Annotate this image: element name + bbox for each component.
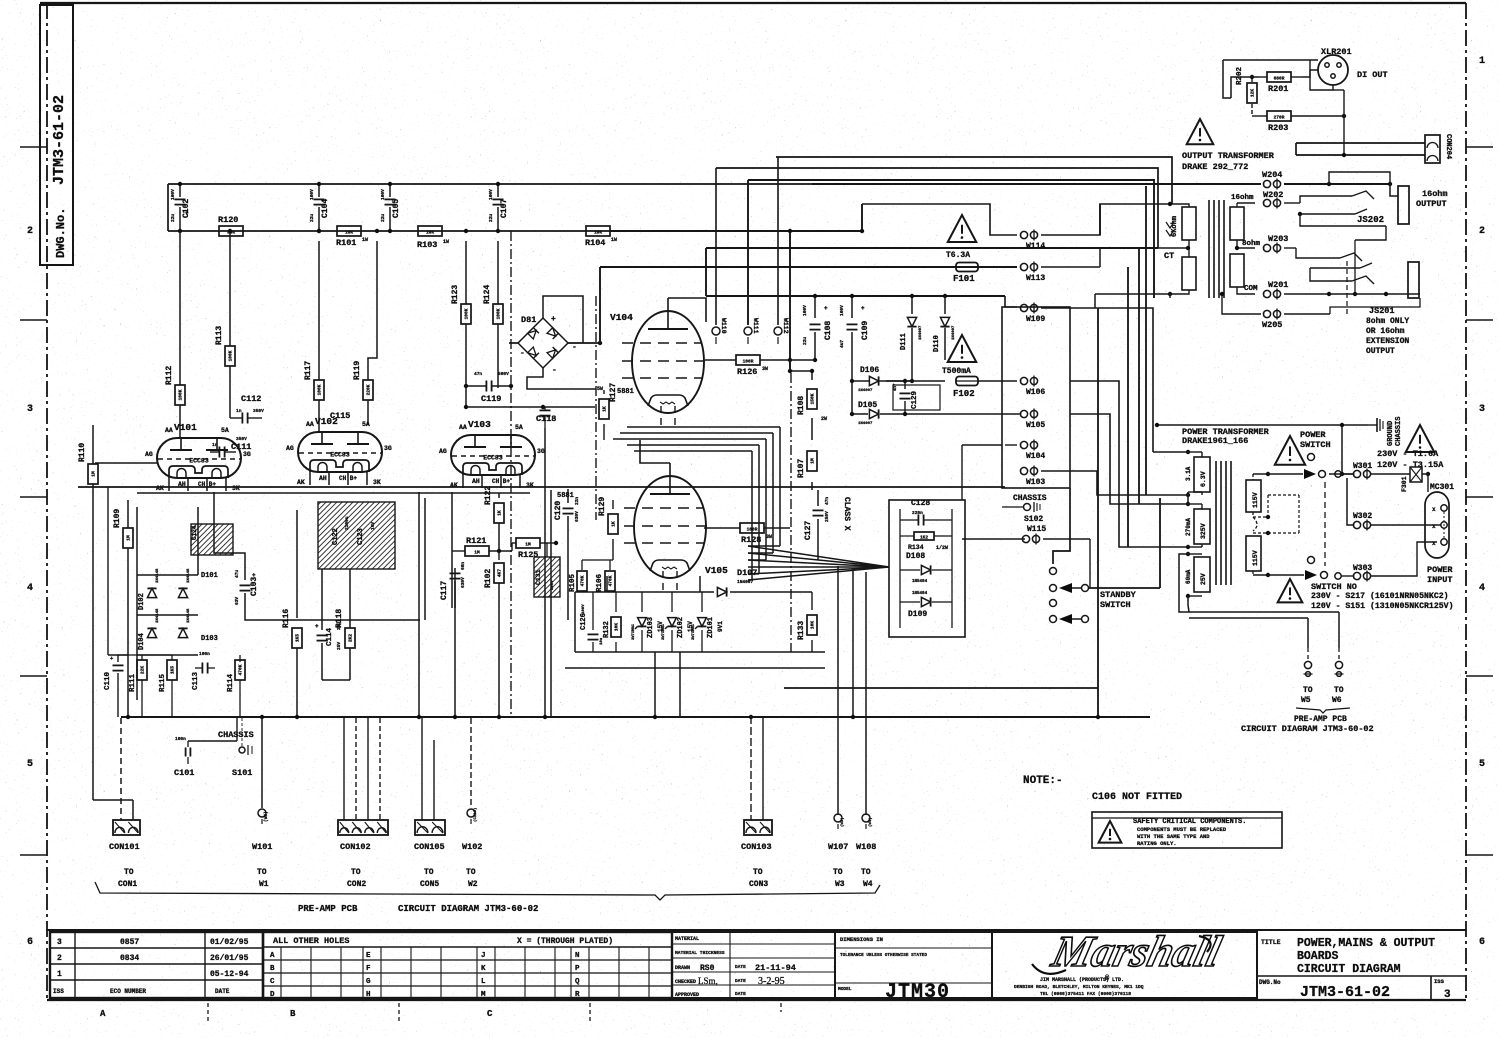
svg-text:63V: 63V <box>234 597 240 605</box>
capacitor C109 <box>839 294 870 380</box>
svg-text:16ohm: 16ohm <box>1231 194 1254 202</box>
svg-text:T6.3A: T6.3A <box>946 251 970 260</box>
svg-text:R121: R121 <box>466 536 486 546</box>
svg-text:22n: 22n <box>574 497 580 505</box>
svg-text:R109: R109 <box>113 509 122 528</box>
wire primary ends <box>1095 294 1170 308</box>
border top line <box>40 2 1466 4</box>
svg-text:10K: 10K <box>810 621 816 629</box>
wire bundle verticals <box>627 427 780 580</box>
svg-text:TO: TO <box>833 868 843 877</box>
svg-text:100K: 100K <box>317 384 323 395</box>
svg-text:100K: 100K <box>464 308 470 319</box>
wire W109 to 6.3V top <box>1070 308 1153 452</box>
svg-text:AK: AK <box>297 479 305 486</box>
svg-text:C129: C129 <box>911 390 919 409</box>
label 16ohm output <box>1416 189 1448 209</box>
svg-text:D108: D108 <box>906 552 925 561</box>
svg-text:R111: R111 <box>129 673 137 692</box>
wire 25V loop <box>1179 554 1339 612</box>
svg-text:1W: 1W <box>362 237 368 243</box>
svg-text:W1: W1 <box>259 880 269 889</box>
wire 115V CT loop <box>1253 495 1299 535</box>
svg-text:100V: 100V <box>309 189 315 200</box>
border bottom line <box>47 999 1466 1001</box>
resistor R118 <box>322 569 355 680</box>
DWG number box <box>40 5 73 265</box>
border left dash-dot line <box>46 3 48 1000</box>
svg-text:C120: C120 <box>554 501 563 520</box>
svg-text:6: 6 <box>1479 937 1485 948</box>
svg-text:C105: C105 <box>392 199 401 218</box>
svg-text:OUTPUT: OUTPUT <box>1366 347 1395 356</box>
svg-text:5A: 5A <box>221 427 229 434</box>
svg-text:4n7: 4n7 <box>894 383 898 391</box>
svg-text:W202: W202 <box>1263 190 1283 200</box>
svg-text:AH: AH <box>319 475 327 482</box>
svg-text:JTM3-61-02: JTM3-61-02 <box>51 95 68 185</box>
resistor R119 <box>353 361 373 425</box>
svg-text:-: - <box>572 343 577 352</box>
wire right bundle <box>1100 204 1128 547</box>
svg-text:22K: 22K <box>140 666 146 674</box>
svg-text:5881: 5881 <box>617 388 634 396</box>
svg-text:D103: D103 <box>201 635 218 643</box>
label 6Kohm <box>1166 216 1179 237</box>
svg-text:H: H <box>366 991 371 999</box>
connector W202 <box>1263 190 1300 209</box>
svg-text:JTM30: JTM30 <box>885 981 950 1004</box>
svg-text:D107: D107 <box>737 568 757 578</box>
resistor R109 <box>113 500 133 718</box>
svg-text:100K: 100K <box>496 308 502 319</box>
diode D102 <box>138 568 160 610</box>
label output transformer <box>1182 151 1275 172</box>
winding 25V <box>1185 552 1210 598</box>
svg-text:R113: R113 <box>215 326 224 345</box>
svg-text:16ohm: 16ohm <box>1422 189 1448 199</box>
wire heater bus AK <box>78 486 1005 488</box>
capacitor C103 <box>214 492 420 620</box>
svg-text:3W7XMRC: 3W7XMRC <box>692 623 696 640</box>
svg-text:470K: 470K <box>238 664 244 675</box>
svg-text:CON5: CON5 <box>420 880 439 889</box>
svg-text:5W: 5W <box>597 386 603 392</box>
svg-text:0834: 0834 <box>120 954 139 963</box>
svg-text:XLR201: XLR201 <box>1321 47 1352 57</box>
svg-text:1N4148: 1N4148 <box>156 568 160 583</box>
svg-text:1M: 1M <box>91 471 97 477</box>
zener ZD102 <box>662 592 694 652</box>
svg-text:21-11-94: 21-11-94 <box>755 963 796 973</box>
wire top bus 2 <box>716 168 1158 248</box>
bottom row C110 <box>104 655 128 717</box>
svg-text:2K2: 2K2 <box>348 634 354 642</box>
Marshall logo box <box>992 927 1257 998</box>
preamp PCB dash-dot boundary <box>511 231 791 718</box>
svg-text:DATE: DATE <box>735 964 746 970</box>
svg-text:PRE-AMP PCB: PRE-AMP PCB <box>298 904 358 914</box>
wire W109 link <box>1005 307 1070 308</box>
svg-text:B: B <box>290 1009 296 1019</box>
fuse F101 <box>953 263 1017 285</box>
svg-text:LSm,: LSm, <box>698 976 718 986</box>
svg-text:DATE: DATE <box>215 988 230 995</box>
svg-text:C117: C117 <box>440 581 449 600</box>
svg-text:230V - S217 (16101NRN05NKC2): 230V - S217 (16101NRN05NKC2) <box>1311 591 1449 601</box>
svg-text:R110: R110 <box>78 443 87 462</box>
svg-text:C128: C128 <box>911 499 930 508</box>
svg-text:R114: R114 <box>227 673 235 692</box>
svg-text:CON1: CON1 <box>118 880 137 889</box>
wire 6.3V taps <box>1144 452 1188 504</box>
wire W104 run <box>962 445 1017 500</box>
svg-text:C104: C104 <box>321 199 330 218</box>
svg-text:TO: TO <box>861 868 871 877</box>
svg-text:CHASSIS: CHASSIS <box>1013 494 1047 503</box>
svg-text:ZD102: ZD102 <box>677 617 685 638</box>
svg-text:D101: D101 <box>201 572 218 580</box>
bottom row R114 <box>227 655 245 717</box>
svg-text:R108: R108 <box>797 396 806 415</box>
svg-text:POWER: POWER <box>1427 565 1453 575</box>
svg-text:V101: V101 <box>174 422 197 433</box>
resistor R120 <box>218 215 243 236</box>
winding 6.3V <box>1185 450 1210 497</box>
svg-text:POWER,MAINS & OUTPUT: POWER,MAINS & OUTPUT <box>1297 937 1435 950</box>
capacitor C101 <box>174 718 237 778</box>
svg-text:25V: 25V <box>336 642 342 650</box>
svg-text:5: 5 <box>27 759 33 770</box>
svg-text:16V: 16V <box>370 522 376 530</box>
connector XLR201 <box>1310 47 1388 90</box>
svg-text:1/2W: 1/2W <box>936 545 948 551</box>
svg-text:R: R <box>575 991 580 999</box>
svg-text:W108: W108 <box>856 842 876 852</box>
svg-text:25V: 25V <box>1200 573 1207 585</box>
svg-text:(W4): (W4) <box>868 817 873 827</box>
connector W5 <box>1301 661 1313 705</box>
winding 115V upper <box>1246 474 1261 517</box>
svg-text:DWG.No: DWG.No <box>1259 979 1281 986</box>
svg-text:100K: 100K <box>228 350 234 361</box>
svg-text:3G: 3G <box>384 445 392 452</box>
svg-text:C127: C127 <box>804 521 813 540</box>
svg-text:Marshall: Marshall <box>1047 927 1227 976</box>
svg-text:OUTPUT TRANSFORMER: OUTPUT TRANSFORMER <box>1182 151 1275 161</box>
wire W114 run <box>862 204 1172 235</box>
svg-text:AG: AG <box>286 445 294 452</box>
svg-text:M: M <box>481 991 486 999</box>
svg-text:350V: 350V <box>253 408 264 414</box>
svg-text:R134: R134 <box>908 544 924 551</box>
svg-text:3: 3 <box>27 404 33 415</box>
diode D107 <box>717 568 757 597</box>
resistor R201 <box>1259 72 1302 94</box>
svg-text:(C110): (C110) <box>473 808 478 822</box>
svg-text:120V - S151 (1310N05NKCR125V): 120V - S151 (1310N05NKCR125V) <box>1311 601 1454 611</box>
svg-text:MATERIAL THICKNESS: MATERIAL THICKNESS <box>675 950 725 956</box>
svg-text:R119: R119 <box>353 361 362 380</box>
resistor R101 <box>336 226 368 248</box>
preamp pcb brace <box>95 882 880 914</box>
wire fan bundle <box>748 546 889 580</box>
svg-text:1K5: 1K5 <box>295 634 301 642</box>
svg-text:R103: R103 <box>417 240 437 250</box>
border zone tick marks <box>20 147 1493 855</box>
resistor R126 <box>705 355 792 377</box>
hatched network C124 <box>191 524 233 555</box>
connector CON103 <box>741 716 772 889</box>
svg-text:W2: W2 <box>468 880 478 889</box>
wire to CON204 <box>1296 143 1425 157</box>
svg-text:W203: W203 <box>1268 234 1288 244</box>
svg-text:4K7: 4K7 <box>497 569 503 577</box>
svg-text:CON3: CON3 <box>749 880 768 889</box>
bottom row R111 <box>129 655 147 717</box>
svg-text:3W7XMRC: 3W7XMRC <box>632 623 636 640</box>
svg-text:R120: R120 <box>218 215 238 225</box>
svg-text:x: x <box>1432 523 1436 530</box>
svg-text:APPROVED: APPROVED <box>675 992 699 998</box>
safety critical components box <box>1092 812 1282 848</box>
svg-text:R201: R201 <box>1268 84 1288 94</box>
svg-text:100V: 100V <box>170 189 176 200</box>
diode D111 <box>900 294 923 381</box>
svg-text:WITH THE SAME TYPE AND: WITH THE SAME TYPE AND <box>1137 833 1210 840</box>
connector W201 <box>1263 280 1420 300</box>
output secondary winding lower <box>1230 254 1244 287</box>
svg-text:3G: 3G <box>243 451 251 458</box>
svg-text:D111: D111 <box>900 333 908 350</box>
svg-text:MODEL: MODEL <box>838 986 852 992</box>
svg-text:2200u: 2200u <box>344 516 350 530</box>
connector CON204 <box>1425 134 1452 163</box>
warning triangle output <box>1187 119 1214 144</box>
svg-text:470K: 470K <box>608 575 614 586</box>
svg-text:100n: 100n <box>175 736 186 742</box>
pentode V105 <box>557 440 728 592</box>
resistor R107 <box>797 428 817 490</box>
border bottom letters <box>100 1003 781 1022</box>
svg-text:AA: AA <box>165 427 173 434</box>
svg-text:1N4007: 1N4007 <box>858 389 873 393</box>
capacitor C119 <box>464 371 513 404</box>
resistor R106 <box>582 560 615 592</box>
resistor R122 <box>484 486 504 551</box>
svg-text:8ohm ONLY: 8ohm ONLY <box>1366 317 1409 326</box>
resistor R125 <box>512 538 558 560</box>
connector MC301 power input <box>1425 483 1454 585</box>
svg-text:CH B+: CH B+ <box>492 478 510 485</box>
pentode V104 <box>610 298 706 427</box>
svg-text:1K: 1K <box>611 521 617 527</box>
connector W303 <box>1335 542 1437 582</box>
svg-text:L: L <box>481 978 486 986</box>
svg-text:60mA: 60mA <box>1185 569 1192 584</box>
svg-text:325V: 325V <box>1200 523 1207 539</box>
resistor R103 <box>417 226 449 250</box>
svg-text:ALL OTHER HOLES: ALL OTHER HOLES <box>273 936 350 946</box>
label CT <box>1158 246 1190 261</box>
wire mains run down <box>1340 425 1344 476</box>
capacitor C107 <box>488 182 509 233</box>
svg-text:CT: CT <box>1164 251 1174 261</box>
svg-text:270mA: 270mA <box>1185 518 1192 536</box>
svg-text:1N4007: 1N4007 <box>919 325 923 340</box>
svg-text:W105: W105 <box>1026 421 1045 430</box>
svg-text:1K: 1K <box>497 510 503 516</box>
svg-text:100V: 100V <box>488 189 494 200</box>
svg-text:W102: W102 <box>462 842 482 852</box>
svg-text:1: 1 <box>57 970 62 979</box>
svg-text:CON101: CON101 <box>109 842 140 852</box>
warning triangle transformer <box>1275 436 1305 465</box>
capacitor C114 <box>315 569 342 680</box>
svg-text:R127: R127 <box>609 383 618 402</box>
svg-text:W112: W112 <box>782 318 789 334</box>
warning triangle T6.3A <box>946 215 976 260</box>
diode D110 <box>933 294 1005 360</box>
standby switch <box>1050 498 1161 624</box>
bottom row R115 <box>118 655 177 717</box>
svg-text:STANDBY: STANDBY <box>1100 590 1137 600</box>
svg-text:230V - T1.6A: 230V - T1.6A <box>1377 449 1439 459</box>
svg-text:1N5404: 1N5404 <box>912 580 928 584</box>
svg-text:6: 6 <box>27 937 33 948</box>
svg-text:115V: 115V <box>1252 492 1259 508</box>
svg-text:150K: 150K <box>810 393 816 404</box>
svg-text:270R: 270R <box>1274 115 1285 121</box>
svg-text:3: 3 <box>57 938 62 947</box>
svg-text:1N4148: 1N4148 <box>156 608 160 623</box>
svg-text:GROUND: GROUND <box>1387 421 1395 446</box>
svg-text:ISS: ISS <box>1434 978 1445 985</box>
svg-text:1W: 1W <box>611 237 617 243</box>
transformer core <box>1216 461 1231 585</box>
warning triangle mains <box>1377 425 1444 470</box>
svg-text:AG: AG <box>145 451 153 458</box>
svg-text:1W: 1W <box>443 239 449 245</box>
svg-text:4u7: 4u7 <box>839 340 845 348</box>
capacitor C108 <box>802 294 833 362</box>
wire W103 run <box>1041 470 1070 472</box>
svg-text:S101: S101 <box>232 768 252 778</box>
wire bus right piece <box>784 687 1098 689</box>
capacitor C111 <box>210 436 251 458</box>
capacitor C105 <box>380 182 401 233</box>
svg-text:C118: C118 <box>536 414 556 424</box>
wire transformer vertical bundle <box>1155 423 1159 427</box>
diode D101 <box>178 568 217 598</box>
svg-text:W115: W115 <box>1027 525 1046 534</box>
note text <box>1023 775 1182 803</box>
svg-text:10K: 10K <box>594 230 602 236</box>
power switch <box>1300 430 1331 580</box>
jack JS201 <box>1296 226 1419 298</box>
svg-text:x: x <box>1432 506 1436 513</box>
svg-text:D102: D102 <box>138 593 146 610</box>
svg-text:P: P <box>575 965 580 973</box>
svg-text:68n: 68n <box>460 562 466 570</box>
snubber block C128 R134 D108 D109 <box>889 499 965 637</box>
svg-text:AH: AH <box>472 478 480 485</box>
svg-text:W111: W111 <box>752 318 759 334</box>
resistor R113 <box>215 229 235 366</box>
diode D104 <box>138 608 160 650</box>
label power transformer <box>1182 427 1270 446</box>
svg-text:ISS: ISS <box>53 988 64 995</box>
svg-text:CLASS X: CLASS X <box>842 497 851 531</box>
svg-text:22u: 22u <box>488 214 494 222</box>
svg-text:JS202: JS202 <box>1357 215 1384 225</box>
svg-text:TO: TO <box>753 868 763 877</box>
svg-text:R112: R112 <box>165 366 174 385</box>
wire pins W110 <box>712 168 727 344</box>
svg-text:ECC83: ECC83 <box>483 455 503 462</box>
svg-text:R102: R102 <box>484 569 493 588</box>
svg-text:1n: 1n <box>236 408 242 414</box>
triode V103 <box>439 419 545 489</box>
svg-text:DENBIGH ROAD, BLETCHLEY, MILTO: DENBIGH ROAD, BLETCHLEY, MILTON KEYNES, … <box>1014 984 1144 990</box>
svg-text:630V: 630V <box>460 577 466 588</box>
svg-text:W3: W3 <box>835 880 845 889</box>
wire fan down legs <box>838 566 866 815</box>
svg-text:C114: C114 <box>326 627 334 646</box>
wire R104 to rectifier <box>610 229 864 371</box>
svg-text:680R: 680R <box>1274 76 1285 82</box>
svg-text:22u: 22u <box>309 214 315 222</box>
svg-text:ECC83: ECC83 <box>330 452 350 459</box>
svg-text:D105: D105 <box>858 401 877 410</box>
svg-text:TITLE: TITLE <box>1261 939 1281 946</box>
svg-text:R126: R126 <box>737 367 757 377</box>
svg-text:DATE: DATE <box>735 991 746 997</box>
svg-text:6.3V: 6.3V <box>1200 471 1207 487</box>
svg-text:AA: AA <box>306 421 314 428</box>
svg-text:W114: W114 <box>1026 242 1045 251</box>
svg-text:+: + <box>824 305 828 312</box>
connector W205 <box>1220 292 1330 330</box>
svg-text:CHECKED: CHECKED <box>675 979 696 985</box>
wire 16ohm tap <box>1231 194 1255 203</box>
svg-text:2W: 2W <box>821 416 827 422</box>
svg-text:MATERIAL: MATERIAL <box>675 936 699 942</box>
svg-text:JTM3-61-02: JTM3-61-02 <box>1300 984 1390 1001</box>
svg-text:R115: R115 <box>159 673 167 692</box>
svg-text:J: J <box>481 952 486 960</box>
svg-text:AK: AK <box>450 482 458 489</box>
connector W301 <box>1329 462 1372 480</box>
svg-text:CON103: CON103 <box>741 842 772 852</box>
svg-text:V105: V105 <box>705 565 728 576</box>
svg-text:W5: W5 <box>1301 696 1311 705</box>
svg-text:1N4148: 1N4148 <box>187 568 191 583</box>
svg-text:CIRCUIT DIAGRAM JTM3-60-02: CIRCUIT DIAGRAM JTM3-60-02 <box>1241 724 1374 734</box>
wire W106 to transformer <box>1070 381 1128 547</box>
title block top edge <box>47 929 1466 931</box>
svg-text:1N4007: 1N4007 <box>858 422 873 426</box>
svg-text:TO: TO <box>424 868 434 877</box>
winding 115V lower <box>1246 536 1261 575</box>
connector W115 <box>962 525 1090 588</box>
label C115 <box>330 411 350 421</box>
svg-text:RATING ONLY.: RATING ONLY. <box>1137 840 1177 847</box>
border right dash-dot line <box>1465 3 1467 1000</box>
connector W101 <box>252 718 272 889</box>
svg-text:TO: TO <box>1303 686 1313 695</box>
svg-text:1K5: 1K5 <box>170 666 176 674</box>
